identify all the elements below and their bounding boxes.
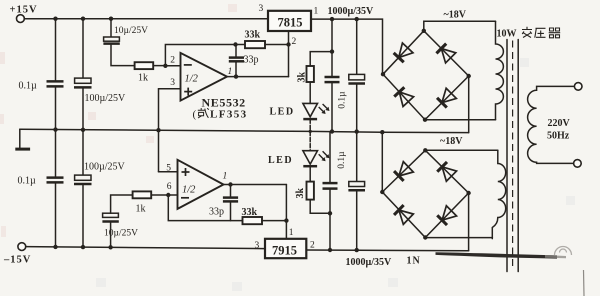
wire U1A output [227,76,289,78]
capacitor C7 0.1µ lower [18,130,64,247]
wire pin3 stub [159,88,181,90]
svg-text:1/2: 1/2 [182,185,196,196]
wire 3k to 0.1µ column [310,200,330,214]
wire 7815 gnd pin riser [288,31,290,77]
svg-text:1/2: 1/2 [185,74,199,85]
svg-text:10W: 10W [497,29,517,40]
svg-text:3k: 3k [297,72,308,83]
svg-text:33k: 33k [245,30,261,41]
diode BR2 top-left [394,162,413,182]
wire R1 to pin2 node [153,65,165,67]
scan bar bottom [436,252,558,258]
svg-text:1: 1 [314,7,319,17]
bridge BR1 diamond [381,29,471,122]
terminal AC top [574,83,582,91]
wire pin6 stub [168,194,177,196]
node mid rail junctions [53,127,384,134]
wire bottom rail right [306,249,468,252]
node bottom rail junctions left [53,245,113,250]
capacitor C4 33p [229,45,259,77]
svg-text:2: 2 [310,241,315,251]
wire BR1 minus riser [468,76,470,133]
svg-text:1k: 1k [138,73,148,84]
svg-text:6: 6 [167,182,172,192]
svg-text:+15V: +15V [10,5,38,16]
svg-text:2: 2 [170,56,175,66]
wire 7915 gnd riser [285,185,287,239]
node 33p output [234,74,238,78]
svg-text:LED: LED [268,155,293,166]
svg-text:100µ/25V: 100µ/25V [85,93,127,104]
svg-text:10µ/25V: 10µ/25V [104,229,138,239]
svg-text:1000µ/35V: 1000µ/35V [328,6,375,17]
svg-text:3: 3 [259,4,264,14]
wire pin2 stub [165,65,180,67]
transformer T1 core [507,40,518,272]
wire U1B output [224,184,287,186]
wire pin5 stub [159,171,178,173]
wire BR2 ac top [425,149,498,151]
label 220V 50Hz [547,118,571,142]
node feedback right [286,42,290,46]
wire LED2 branch top [309,131,311,150]
wire pin6 feedback riser [168,195,242,221]
node top rail junctions [53,17,113,21]
transformer T1 primary winding [528,86,575,163]
transformer T1 secondary winding upper [496,21,504,120]
op-amp U1B 1/2 [166,160,227,209]
terminal AC bottom [574,160,582,168]
transformer T1 secondary winding lower [492,150,505,238]
resistor R6 3k lower [295,182,314,200]
svg-text:0.1µ: 0.1µ [19,81,38,92]
label 10W 变压器 [497,27,561,40]
svg-text:33p: 33p [244,55,259,66]
wire bottom rail left [26,247,265,249]
diode BR1 bottom-right [437,88,457,108]
diode BR1 bottom-left [394,87,414,106]
wire LED2 to 3k [309,166,311,181]
resistor R1 1k [135,62,154,83]
LED D1 [270,103,330,131]
wire mid 0V rail [20,129,469,132]
wire BR1 ac bottom [425,119,496,121]
capacitor C12 1000µ/35V lower electrolytic [348,132,365,251]
diode BR1 top-left [393,43,413,62]
ground [15,129,30,149]
diode BR2 bottom-left [394,205,413,225]
label (或LF353 [193,108,248,121]
svg-text:LED: LED [270,107,295,118]
svg-text:3: 3 [170,78,175,88]
stray line bottom right [583,270,586,296]
svg-text:~18V: ~18V [444,10,467,21]
capacitor C9 10µ/25V lower electrolytic [102,195,138,247]
node feedback right lower [284,218,288,222]
diode BR2 top-right [437,162,457,182]
node 3k branch lower [328,211,332,215]
node pin2 junction [163,64,167,68]
wire top +15V rail [24,18,268,20]
wire R4 to pin6 node [151,194,168,196]
resistor R2 33k [236,30,289,49]
capacitor C10 33p lower [209,185,238,221]
svg-text:33p: 33p [209,207,224,218]
svg-text:1: 1 [223,172,228,182]
diode BR1 top-right [436,43,456,63]
capacitor C8 100µ/25V lower electrolytic [74,130,126,247]
svg-text:1k: 1k [136,204,146,215]
wire 3k to LED1 [309,82,311,103]
regulator U2 7815 [259,4,319,31]
svg-text:1: 1 [228,67,233,77]
node 3k branch [330,49,334,53]
svg-text:3: 3 [255,241,260,251]
diode BR2 bottom-right [437,206,457,226]
capacitor C6 1000µ/35V electrolytic [348,19,365,132]
op-amp U1A NE5532 1/2 [170,53,232,101]
svg-text:33k: 33k [242,207,258,218]
wire BR2 minus riser [468,193,470,251]
node raw rail junctions [330,17,359,21]
svg-text:100µ/25V: 100µ/25V [84,162,126,173]
wire feedback riser [165,45,235,66]
regulator U3 7915 [255,239,316,258]
terminal -15V [3,243,31,266]
bridge BR2 diamond [380,148,471,240]
svg-text:220V: 220V [548,118,571,129]
capacitor C3 10µ/25V electrolytic [103,19,148,66]
node feedback left [233,42,237,46]
svg-text:7815: 7815 [278,16,303,30]
node 33p top lower [228,182,232,186]
svg-text:0.1µ: 0.1µ [338,91,348,109]
terminal +15V [10,5,38,23]
node bottom rail junctions right [328,248,359,253]
svg-text:1: 1 [289,228,294,238]
wire BR1 ac top [424,21,496,31]
resistor R3 3k [297,66,314,83]
svg-text:10µ/25V: 10µ/25V [114,26,148,36]
svg-text:1N: 1N [407,256,421,267]
stray mark circle [555,247,572,256]
wire 3k branch [310,52,332,66]
svg-text:2: 2 [292,37,297,47]
resistor R5 33k lower [242,207,287,224]
capacitor C5 0.1µ [325,19,348,131]
svg-text:1000µ/35V: 1000µ/35V [346,257,393,268]
capacitor C11 0.1µ lower mid [323,132,348,251]
node pin6 junction [166,193,170,197]
wire BR2 ac bottom [425,237,492,239]
svg-text:~18V: ~18V [440,136,463,147]
wire noninverting riser [158,89,160,172]
LED D2 [268,151,330,167]
resistor R4 1k lower [133,191,152,214]
wire BR2 plus riser [381,132,383,192]
svg-text:3k: 3k [295,188,306,199]
svg-text:NE5532: NE5532 [202,96,246,110]
capacitor C1 0.1µ [19,19,64,130]
wire raw dc rail [311,19,383,74]
svg-text:0.1µ: 0.1µ [18,176,37,187]
svg-text:7915: 7915 [272,244,297,258]
svg-text:50Hz: 50Hz [547,130,570,141]
svg-text:–15V: –15V [3,255,31,266]
svg-text:(: ( [193,109,197,121]
svg-text:LF353: LF353 [210,109,248,121]
svg-text:0.1µ: 0.1µ [337,151,347,169]
capacitor C2 100µ/25V electrolytic [74,19,126,130]
